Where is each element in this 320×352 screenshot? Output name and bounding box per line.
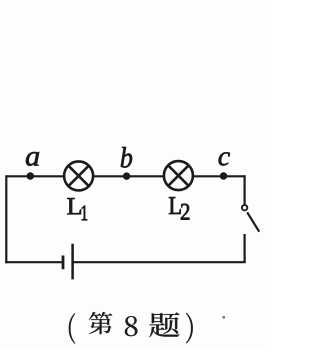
wire left vertical [5,175,7,263]
caption (第 8 题) [69,312,193,344]
label L2 [169,197,189,219]
wire bottom left (to battery) [5,261,63,263]
switch S1 pivot circle [242,205,247,210]
wire bottom right (battery to switch side) [73,261,246,263]
switch S1 blade (open) [247,212,259,231]
node label c [219,152,230,165]
battery B1 short plate (negative) [62,256,65,270]
lamp L2 (circle with X) [164,161,193,190]
battery B1 long plate (positive) [71,244,74,280]
node a (junction dot) [27,172,35,180]
wire top horizontal a-b-c [6,175,244,177]
node c (junction dot) [220,172,228,180]
wire right vertical upper (c to switch) [244,175,246,204]
node b (junction dot) [123,172,131,180]
node label b [121,147,132,168]
lamp L1 (circle with X) [64,161,93,190]
node label a [26,152,39,166]
wire right vertical lower [244,234,246,262]
label L1 [67,198,87,220]
stray scan speck [222,316,225,319]
